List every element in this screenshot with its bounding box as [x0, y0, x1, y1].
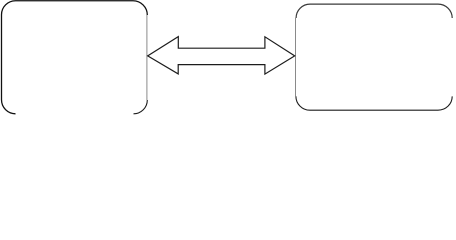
double-headed hollow arrow — [148, 37, 295, 75]
right rounded box — [296, 4, 453, 110]
left rounded box — [2, 1, 148, 114]
